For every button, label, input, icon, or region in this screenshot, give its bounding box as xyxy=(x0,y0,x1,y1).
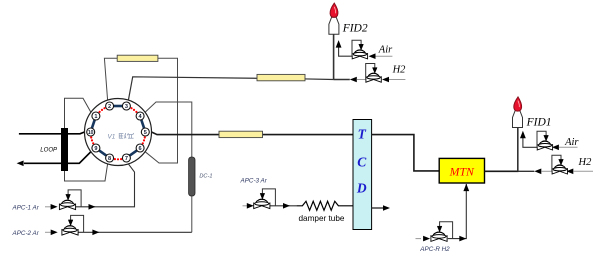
wire: port4 down through DC-1 xyxy=(145,102,192,232)
regulator APC-3 xyxy=(254,189,276,209)
svg-text:LOOP: LOOP xyxy=(40,146,58,153)
port 10 xyxy=(87,128,95,136)
port 7 xyxy=(122,154,130,162)
arrow: air into line xyxy=(369,53,376,59)
FID1 chimney xyxy=(513,111,523,128)
wire: FID1 air up-line xyxy=(523,138,538,148)
arrow: H2 into valve xyxy=(382,77,389,83)
wire: port2 to column1 xyxy=(104,58,117,100)
label V1 chinese glyphs (drawn) xyxy=(119,133,134,138)
wire: APC-1 input xyxy=(45,206,52,208)
svg-text:10: 10 xyxy=(88,130,94,136)
arrow: air into valve xyxy=(552,145,559,151)
wire: H2 mid segment xyxy=(541,170,552,172)
regulator FID2 air xyxy=(352,40,368,59)
wire: sample in line to port 10 xyxy=(19,132,85,134)
wire: APC-R output up to MTN xyxy=(448,184,467,239)
svg-text:FID2: FID2 xyxy=(342,23,368,35)
DC-1 restrictor column xyxy=(189,157,195,196)
wire: APC-3 output xyxy=(270,205,297,207)
wire: H2 supply tail xyxy=(573,170,593,172)
arrow: H2 into valve xyxy=(566,169,573,175)
port 6 xyxy=(136,144,144,152)
regulator FID1 H2 xyxy=(552,155,568,174)
wire: FID2 H2 line from junction xyxy=(334,79,350,81)
svg-text:C: C xyxy=(357,155,367,170)
svg-text:T: T xyxy=(358,127,367,142)
svg-text:6: 6 xyxy=(139,146,142,152)
LOOP bar xyxy=(61,128,68,171)
arrow: H2 into junction xyxy=(350,77,357,83)
wire: FID2 air up-line xyxy=(339,47,353,56)
wire: FID2 riser xyxy=(333,34,335,79)
wire: MTN to FID1 junction xyxy=(485,170,519,172)
arrow: APC-1 in xyxy=(51,204,58,210)
arrow: air into FID2 xyxy=(336,40,342,48)
wire: sample out line from port 9 xyxy=(24,152,91,164)
regulator APC-2 xyxy=(62,215,84,235)
column 3 xyxy=(219,131,263,137)
port 4 xyxy=(136,112,144,120)
FID2 chimney xyxy=(329,17,339,34)
svg-text:5: 5 xyxy=(144,130,147,136)
wire: APC-R H2 input xyxy=(416,238,422,240)
port 1 xyxy=(92,112,100,120)
MTN methanizer box xyxy=(439,158,484,183)
svg-text:APC-1 Ar: APC-1 Ar xyxy=(12,205,40,212)
wire: air supply tail xyxy=(559,146,578,148)
wire: FID1 H2 branch xyxy=(518,170,535,172)
svg-text:2: 2 xyxy=(108,104,111,110)
valve body circle xyxy=(85,99,152,166)
svg-text:damper tube: damper tube xyxy=(299,214,345,223)
wire: loop tube port1 to port8 (vertical behind LOOP bar) xyxy=(65,98,108,181)
svg-text:9: 9 xyxy=(94,146,97,152)
rotor channel 6-7 xyxy=(130,150,137,155)
wire: TCD vent xyxy=(372,207,384,209)
TCD cell box xyxy=(353,120,372,230)
svg-text:APC-3 Ar: APC-3 Ar xyxy=(240,177,268,184)
wire: TCD to MTN xyxy=(372,135,440,171)
arrow: APC-3 out xyxy=(283,203,290,209)
arrow: air into FID1 xyxy=(520,131,526,139)
regulator APC-R xyxy=(431,222,453,242)
arrow: H2 into junction xyxy=(534,169,541,175)
wire: air supply tail xyxy=(376,55,393,57)
port 2 xyxy=(106,102,114,110)
rotor channel 8-9 xyxy=(99,150,106,155)
FID2 flame xyxy=(330,3,338,17)
svg-text:Air: Air xyxy=(564,137,579,148)
arrow: APC-2 in xyxy=(51,230,58,236)
arrow: APC-2 out xyxy=(92,230,99,236)
port 8 xyxy=(106,154,114,162)
wire: APC-2 input xyxy=(45,231,52,233)
wire: H2 supply tail xyxy=(389,79,405,81)
arrow: APC-3 in xyxy=(247,203,254,209)
port 3 xyxy=(122,102,130,110)
regulator FID1 air xyxy=(537,131,553,150)
regulator FID2 H2 xyxy=(366,64,382,83)
rotor channel 10-1 xyxy=(92,120,95,128)
port 5 xyxy=(141,128,149,136)
rotor alt position dots 1-2 xyxy=(99,107,106,113)
rotor channel 4-5 xyxy=(141,120,144,128)
port 9 xyxy=(92,144,100,152)
wire: port5 to column3 to TCD xyxy=(152,132,354,135)
svg-text:DC-1: DC-1 xyxy=(199,174,212,180)
label TCD xyxy=(356,127,367,196)
rotor alt position dots 9-10 xyxy=(90,136,94,144)
wire: port3 to column2 to FID2 junction xyxy=(128,77,333,100)
svg-text:APC-2 Ar: APC-2 Ar xyxy=(12,230,40,237)
wire: H2 mid segment xyxy=(357,79,366,81)
arrow: into MTN bottom xyxy=(463,184,469,192)
wire: APC-3 input xyxy=(243,205,249,207)
svg-text:H2: H2 xyxy=(392,64,407,75)
wire: APC-1 output up to port7 xyxy=(76,164,135,207)
rotor alt position dots 7-8 xyxy=(114,158,122,160)
wire: APC-2 output to DC-1 bottom xyxy=(78,231,191,233)
svg-text:MTN: MTN xyxy=(449,164,475,178)
svg-text:3: 3 xyxy=(125,104,128,110)
arrow: APC-R in xyxy=(423,236,430,242)
wire: FID1 riser xyxy=(517,128,519,172)
wire: column1 to port6 xyxy=(145,58,177,163)
arrow: TCD vent xyxy=(383,205,390,211)
damper tube coil xyxy=(297,201,353,210)
svg-text:D: D xyxy=(356,181,367,196)
svg-text:1: 1 xyxy=(94,114,97,120)
rotor alt position dots 5-6 xyxy=(142,136,146,144)
svg-text:Air: Air xyxy=(378,45,393,56)
column 2 xyxy=(257,74,305,80)
svg-text:APC-R H2: APC-R H2 xyxy=(419,246,450,253)
regulator APC-1 xyxy=(59,190,81,210)
arrow: sample out to waste xyxy=(17,161,24,167)
arrow: APC-1 out xyxy=(89,204,96,210)
FID1 flame xyxy=(514,97,522,111)
svg-text:FID1: FID1 xyxy=(526,116,552,128)
svg-text:7: 7 xyxy=(125,156,128,162)
svg-text:V1: V1 xyxy=(108,134,116,141)
rotor channel 2-3 xyxy=(114,105,123,108)
svg-text:H2: H2 xyxy=(578,157,593,168)
svg-text:8: 8 xyxy=(108,156,111,162)
column 1 xyxy=(117,55,158,61)
arrow: APC-R out xyxy=(459,236,466,242)
rotor alt position dots 3-4 xyxy=(130,107,137,113)
